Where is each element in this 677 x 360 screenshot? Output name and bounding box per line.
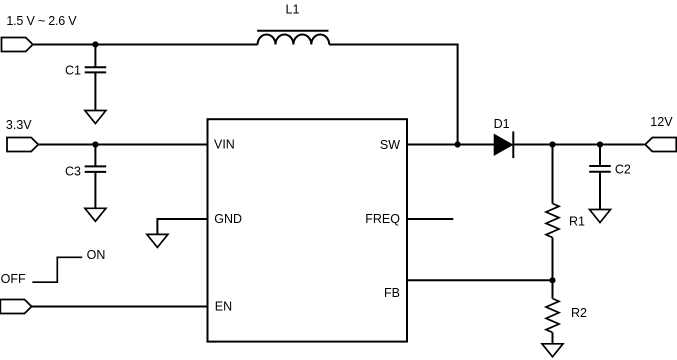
- connector output 12V: [645, 138, 676, 152]
- node junction output/R1: [549, 141, 555, 147]
- wire FREQ stub: [407, 218, 453, 220]
- wire 3.3V rail to VIN: [38, 144, 207, 146]
- svg-text:C3: C3: [65, 164, 81, 178]
- svg-text:R2: R2: [571, 306, 587, 320]
- diode D1: [494, 131, 513, 158]
- wire C3 to ground: [94, 172, 96, 208]
- svg-text:D1: D1: [494, 117, 510, 131]
- svg-text:R1: R1: [569, 214, 585, 228]
- wire FB: [407, 279, 553, 281]
- node junction SW/L1: [455, 141, 461, 147]
- svg-text:1.5 V ~ 2.6 V: 1.5 V ~ 2.6 V: [6, 14, 77, 28]
- wire C3 branch upper: [94, 145, 96, 167]
- svg-text:FB: FB: [384, 286, 400, 300]
- node junction 3.3V/C3: [92, 141, 98, 147]
- svg-text:C1: C1: [65, 64, 81, 78]
- svg-text:ON: ON: [87, 248, 106, 262]
- resistor R1: [546, 204, 559, 238]
- ground R2: [542, 344, 563, 357]
- capacitor C3: [85, 166, 107, 172]
- svg-text:3.3V: 3.3V: [6, 118, 32, 132]
- wire C1 branch upper: [94, 45, 96, 68]
- wire R1 to FB node: [552, 238, 554, 281]
- svg-text:SW: SW: [380, 138, 400, 152]
- wire C2 upper: [599, 145, 601, 167]
- svg-text:12V: 12V: [650, 115, 673, 129]
- svg-text:EN: EN: [215, 299, 232, 313]
- svg-text:FREQ: FREQ: [365, 212, 400, 226]
- wire diode to output connector: [513, 144, 644, 146]
- ground C1: [85, 111, 106, 124]
- node junction FB: [549, 277, 555, 283]
- wire R2 upper: [552, 280, 554, 298]
- capacitor C2: [589, 166, 611, 172]
- wire C1 to ground: [94, 72, 96, 110]
- wire 1.5V rail to inductor: [33, 44, 258, 46]
- wire EN rail: [32, 306, 208, 308]
- svg-text:C2: C2: [615, 163, 631, 177]
- svg-text:L1: L1: [286, 3, 300, 17]
- svg-text:GND: GND: [214, 212, 242, 226]
- connector input 1.5V: [2, 38, 33, 52]
- ground GND pin: [147, 234, 168, 247]
- wire inductor to SW node: [329, 45, 457, 145]
- resistor R2: [546, 299, 559, 333]
- svg-text:OFF: OFF: [1, 272, 26, 286]
- ground C2: [590, 210, 611, 223]
- op-amp U1 box: [208, 119, 408, 341]
- connector input EN: [0, 300, 31, 314]
- ground C3: [85, 208, 106, 221]
- inductor L1: [258, 35, 330, 45]
- svg-text:VIN: VIN: [214, 138, 235, 152]
- wire R1 upper: [552, 145, 554, 204]
- inductor L1 top bar: [257, 30, 328, 32]
- connector input 3.3V: [7, 138, 38, 152]
- wire R2 to ground: [552, 333, 554, 344]
- node junction 1.5V/C1: [92, 41, 98, 47]
- node junction output/C2: [597, 141, 603, 147]
- capacitor C1: [85, 67, 107, 72]
- wire enable step waveform: [32, 257, 82, 282]
- wire GND pin: [157, 219, 207, 234]
- wire SW to diode: [407, 144, 494, 146]
- wire C2 to ground: [599, 172, 601, 210]
